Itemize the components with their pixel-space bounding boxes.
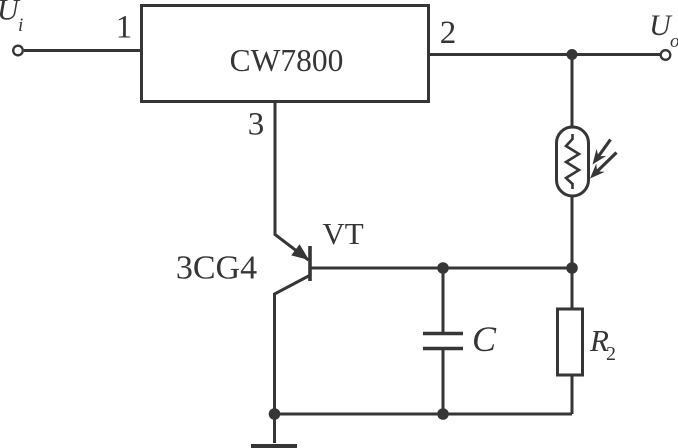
svg-text:2: 2 — [440, 15, 457, 51]
svg-text:2: 2 — [606, 343, 616, 365]
svg-text:3CG4: 3CG4 — [176, 250, 257, 287]
svg-text:CW7800: CW7800 — [230, 43, 344, 78]
svg-text:i: i — [18, 15, 23, 36]
svg-text:o: o — [670, 31, 678, 52]
svg-text:3: 3 — [248, 107, 265, 143]
svg-text:1: 1 — [116, 10, 133, 46]
svg-text:C: C — [472, 319, 497, 359]
svg-text:VT: VT — [322, 216, 363, 251]
